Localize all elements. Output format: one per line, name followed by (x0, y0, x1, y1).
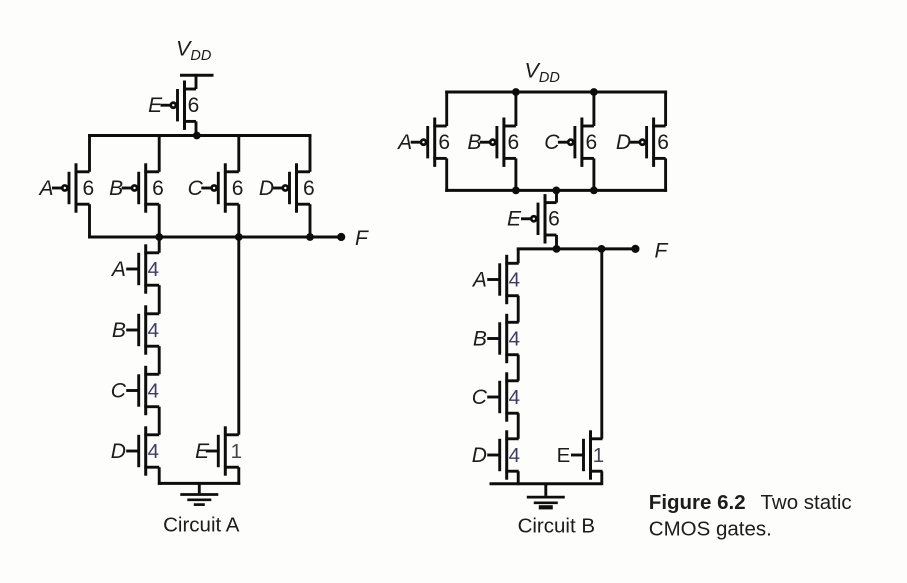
wire pmos E7 drain to inner rail (555, 192, 558, 203)
svg-text:4: 4 (148, 440, 159, 463)
pmos B2 (Circuit A pull-up, B gate, W=6) (122, 163, 160, 212)
wire chain into nmos B8 drain (517, 296, 520, 323)
nmos E9 (Circuit B, E gate, W=1) (571, 430, 603, 479)
junction dot nmos E9 drain on F rail (598, 245, 606, 253)
svg-text:6: 6 (152, 177, 164, 200)
wire nmos D8 source to ground rail (517, 471, 520, 485)
svg-text:D: D (111, 440, 126, 463)
svg-text:6: 6 (586, 131, 598, 154)
nmos D3 (Circuit A pull-down chain, D gate, W=4) (126, 426, 159, 475)
wire nmos E5 drain up to F rail (237, 237, 240, 435)
svg-text:C: C (544, 131, 560, 154)
wire pmos D2 source to F rail (309, 204, 312, 238)
wire pmos A2 drain to pull-up rail (88, 134, 91, 172)
wire pmos B6 source to inner rail (514, 158, 517, 191)
wire ground rail (Circuit B) (490, 482, 603, 485)
nmos A8 (Circuit B pull-down chain, A gate, W=4) (487, 255, 519, 304)
wire pmos E7 source to F rail (555, 235, 558, 250)
svg-text:D: D (616, 131, 631, 154)
svg-text:D: D (472, 444, 487, 467)
wire chain into nmos C3 drain (158, 346, 161, 374)
svg-text:A: A (110, 258, 126, 281)
junction dot pmos E7 drain on inner rail (552, 187, 560, 195)
wire output rail F (Circuit A) (88, 236, 341, 239)
wire output rail F (Circuit B) (517, 247, 636, 250)
wire pmos D2 drain to pull-up rail (309, 134, 312, 172)
wire pmos D6 drain to VDD rail (664, 91, 667, 126)
svg-text:D: D (259, 177, 274, 200)
svg-text:E: E (148, 94, 163, 117)
wire E1 source to pull-up rail (195, 121, 198, 136)
wire pmos B2 drain to pull-up rail (158, 134, 161, 172)
svg-text:1: 1 (593, 444, 604, 467)
svg-text:F: F (655, 240, 669, 263)
pmos E7 (Circuit B, E gate, W=6) (521, 194, 557, 243)
svg-text:F: F (355, 227, 369, 250)
pmos B6 (Circuit B pull-up, B gate, W=6) (480, 118, 516, 167)
junction dot pmos B6 drain on VDD rail (512, 88, 520, 96)
junction dot pmos C6 source on inner rail (590, 187, 598, 195)
svg-text:B: B (112, 319, 126, 342)
junction dot pmos E7 source on F rail (553, 245, 561, 253)
wire pmos A6 source to inner rail (445, 158, 448, 191)
svg-text:C: C (111, 379, 127, 402)
svg-text:CMOS gates.: CMOS gates. (649, 518, 772, 541)
svg-text:A: A (37, 177, 53, 200)
wire nmos D3 source to ground rail (158, 467, 161, 485)
VDD supply rail (Circuit A) (180, 74, 214, 77)
svg-text:6: 6 (548, 208, 560, 231)
wire chain into nmos B3 drain (158, 285, 161, 314)
wire pull-up rail (Circuit A) (88, 134, 312, 137)
svg-text:Two static: Two static (761, 491, 852, 514)
svg-text:Circuit B: Circuit B (518, 515, 595, 538)
svg-text:4: 4 (509, 268, 520, 291)
wire nmos E9 drain up to F rail (600, 249, 603, 439)
svg-text:B: B (467, 131, 481, 154)
node F terminal dot (Circuit B) (631, 245, 639, 253)
nmos B8 (Circuit B pull-down chain, B gate, W=4) (487, 314, 519, 363)
pmos D2 (Circuit A pull-up, D gate, W=6) (273, 163, 311, 212)
ground symbol (Circuit B) (527, 484, 565, 508)
wire nmos E9 source to ground rail (600, 471, 603, 485)
nmos D8 (Circuit B pull-down chain, D gate, W=4) (487, 430, 519, 479)
svg-text:4: 4 (509, 386, 520, 409)
svg-text:4: 4 (148, 379, 159, 402)
wire chain into nmos C8 drain (517, 355, 520, 381)
svg-text:6: 6 (438, 131, 450, 154)
wire pmos B2 source to F rail (158, 204, 161, 238)
svg-text:Figure 6.2: Figure 6.2 (649, 491, 746, 514)
wire pmos B6 drain to VDD rail (514, 91, 517, 126)
svg-text:6: 6 (303, 177, 315, 200)
svg-text:6: 6 (232, 177, 244, 200)
wire pmos C6 drain to VDD rail (592, 91, 595, 126)
junction dot E1 source on pull-up rail (193, 132, 201, 140)
svg-text:6: 6 (508, 131, 520, 154)
svg-text:4: 4 (148, 258, 159, 281)
pmos C2 (Circuit A pull-up, C gate, W=6) (201, 163, 239, 212)
wire pmos C6 source to inner rail (592, 158, 595, 191)
svg-text:C: C (188, 177, 204, 200)
wire chain into nmos D8 drain (517, 413, 520, 439)
svg-text:A: A (396, 131, 412, 154)
svg-text:4: 4 (148, 319, 159, 342)
nmos A3 (Circuit A pull-down chain, A gate, W=4) (126, 244, 159, 293)
wire pmos A2 source to F rail (88, 204, 91, 238)
svg-text:E: E (507, 208, 522, 231)
svg-text:A: A (471, 268, 487, 291)
pmos A6 (Circuit B pull-up, A gate, W=6) (411, 118, 447, 167)
wire pmos C2 drain to pull-up rail (237, 134, 240, 172)
wire pmos A6 drain to VDD rail (445, 91, 448, 126)
junction dot C2/E5 on F rail (235, 233, 243, 241)
svg-text:B: B (109, 177, 123, 200)
svg-text:E: E (557, 444, 571, 467)
wire chain into nmos A3 drain (158, 237, 161, 253)
svg-text:E: E (195, 440, 210, 463)
wire nmos E5 source to ground rail (237, 467, 240, 485)
wire pmos C2 source to F rail (237, 204, 240, 238)
svg-text:6: 6 (188, 94, 200, 117)
wire pmos D6 source to inner rail (664, 158, 667, 191)
svg-text:4: 4 (509, 327, 520, 350)
nmos E5 (Circuit A, E gate, W=1) (206, 426, 239, 475)
ground symbol (Circuit A) (180, 483, 218, 504)
svg-text:6: 6 (82, 177, 94, 200)
junction dot B2/nmos chain on F rail (155, 233, 163, 241)
pmos E1 (Circuit A pull-up, E gate, W=6) (161, 81, 197, 130)
node F terminal dot (Circuit A) (337, 233, 345, 241)
nmos C8 (Circuit B pull-down chain, C gate, W=4) (487, 372, 519, 421)
svg-text:6: 6 (657, 131, 669, 154)
svg-text:1: 1 (231, 440, 242, 463)
wire pull-up inner rail (Circuit B) (445, 189, 667, 192)
svg-text:B: B (473, 327, 487, 350)
svg-text:C: C (472, 386, 488, 409)
pmos A2 (Circuit A pull-up, A gate, W=6) (52, 163, 90, 212)
nmos C3 (Circuit A pull-down chain, C gate, W=4) (126, 366, 159, 415)
junction dot D2 source on F rail (306, 233, 314, 241)
VDD rail (Circuit B) (445, 91, 667, 94)
junction dot pmos C6 drain on VDD rail (590, 88, 598, 96)
wire chain into nmos D3 drain (158, 407, 161, 435)
pmos D6 (Circuit B pull-up, D gate, W=6) (630, 118, 666, 167)
nmos B3 (Circuit A pull-down chain, B gate, W=4) (126, 305, 159, 354)
wire ground rail (Circuit A) (158, 482, 240, 485)
svg-text:4: 4 (509, 444, 520, 467)
svg-text:Circuit A: Circuit A (163, 514, 240, 537)
pmos C6 (Circuit B pull-up, C gate, W=6) (558, 118, 594, 167)
junction dot pmos B6 source on inner rail (512, 187, 520, 195)
wire E1 drain to VDD rail (195, 74, 198, 89)
wire chain into nmos A8 drain (517, 249, 520, 263)
